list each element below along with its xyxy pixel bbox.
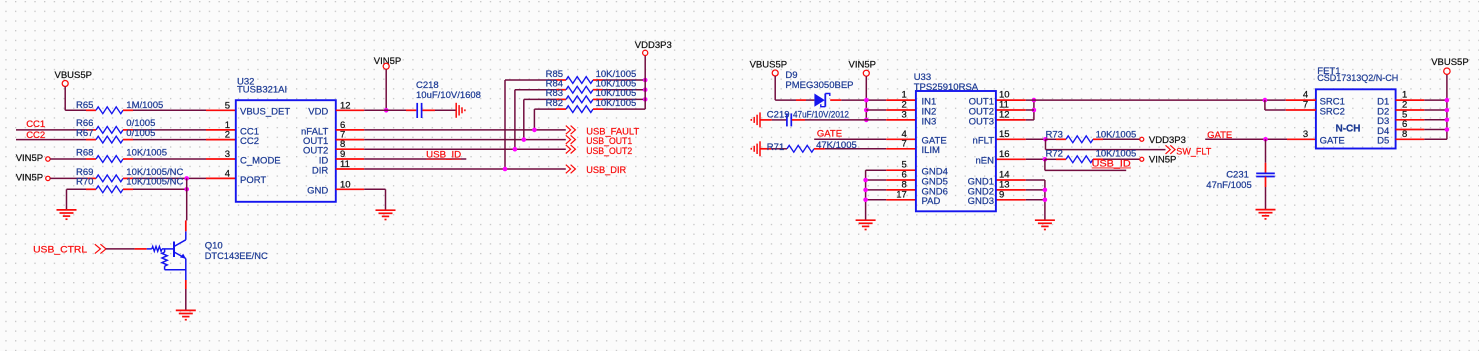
svg-text:nEN: nEN [976,156,995,167]
svg-text:VDD3P3: VDD3P3 [1149,135,1186,146]
svg-text:GND3: GND3 [968,196,994,207]
svg-text:16: 16 [999,149,1010,160]
svg-text:SRC2: SRC2 [1320,106,1345,117]
svg-text:R73: R73 [1046,130,1063,141]
svg-text:GATE: GATE [817,129,842,140]
svg-text:D5: D5 [1377,136,1389,147]
svg-text:USB_DIR: USB_DIR [586,165,626,176]
svg-text:VIN5P: VIN5P [1149,155,1176,166]
svg-text:VBUS_DET: VBUS_DET [240,107,290,118]
svg-text:VIN5P: VIN5P [16,153,43,164]
svg-text:CSD17313Q2/N-CH: CSD17313Q2/N-CH [1317,73,1398,84]
svg-text:10uF/10V/1608: 10uF/10V/1608 [416,90,481,101]
svg-text:0/1005: 0/1005 [126,128,155,139]
svg-text:SW_FLT: SW_FLT [1176,147,1211,158]
svg-text:DIR: DIR [312,165,329,176]
svg-text:10K/1005: 10K/1005 [1096,130,1137,141]
svg-text:IN3: IN3 [922,116,937,127]
svg-text:VIN5P: VIN5P [849,60,876,71]
svg-text:47uF/10V/2012: 47uF/10V/2012 [793,109,849,120]
svg-text:CC2: CC2 [240,136,259,147]
svg-text:15: 15 [999,129,1010,140]
svg-text:VIN5P: VIN5P [16,172,43,183]
svg-text:R72: R72 [1046,149,1063,160]
svg-text:R82: R82 [546,98,563,109]
svg-text:N-CH: N-CH [1336,124,1361,135]
svg-text:10K/1005: 10K/1005 [126,148,167,159]
svg-text:PORT: PORT [240,175,266,186]
svg-text:8: 8 [1402,129,1407,140]
svg-text:10K/1005/NC: 10K/1005/NC [126,177,183,188]
svg-text:R71: R71 [767,142,784,153]
svg-text:VBUS5P: VBUS5P [55,70,93,81]
svg-text:R68: R68 [76,148,93,159]
svg-text:ILIM: ILIM [922,145,941,156]
svg-text:4: 4 [225,168,230,179]
svg-text:7: 7 [902,138,907,149]
svg-text:nFLT: nFLT [973,136,995,147]
svg-text:Q10: Q10 [205,241,223,252]
svg-text:10K/1005: 10K/1005 [596,98,637,109]
svg-text:OUT3: OUT3 [969,116,994,127]
svg-text:VBUS5P: VBUS5P [1431,57,1469,68]
svg-text:3: 3 [902,109,907,120]
svg-text:VDD3P3: VDD3P3 [635,40,672,51]
svg-text:VDD: VDD [308,107,328,118]
svg-text:PMEG3050BEP: PMEG3050BEP [785,80,853,91]
svg-text:7: 7 [1303,100,1308,111]
svg-text:VIN5P: VIN5P [374,56,401,67]
svg-text:PAD: PAD [922,196,941,207]
svg-text:DTC143EE/NC: DTC143EE/NC [205,251,268,262]
svg-text:USB_OUT2: USB_OUT2 [586,146,632,157]
svg-text:12: 12 [999,109,1010,120]
svg-text:17: 17 [896,189,907,200]
svg-text:USB_CTRL: USB_CTRL [33,244,87,255]
svg-text:CC1: CC1 [26,119,45,130]
svg-text:C_MODE: C_MODE [240,155,281,166]
svg-text:3: 3 [1303,129,1308,140]
svg-text:VBUS5P: VBUS5P [750,60,788,71]
svg-text:GATE: GATE [1207,130,1232,141]
svg-text:R67: R67 [76,128,93,139]
svg-text:TPS25910RSA: TPS25910RSA [914,82,979,93]
svg-text:9: 9 [999,189,1004,200]
svg-text:R70: R70 [76,177,93,188]
svg-text:GATE: GATE [1320,136,1345,147]
svg-text:2: 2 [225,130,230,141]
svg-text:C219: C219 [767,109,790,120]
svg-text:TUSB321AI: TUSB321AI [237,85,287,96]
svg-text:47K/1005: 47K/1005 [816,140,857,151]
svg-text:5: 5 [225,100,230,111]
svg-text:1M/1005: 1M/1005 [126,100,163,111]
svg-text:47nF/1005: 47nF/1005 [1206,180,1251,191]
svg-text:3: 3 [225,149,230,160]
svg-text:R65: R65 [76,100,93,111]
svg-text:GND: GND [307,186,328,197]
